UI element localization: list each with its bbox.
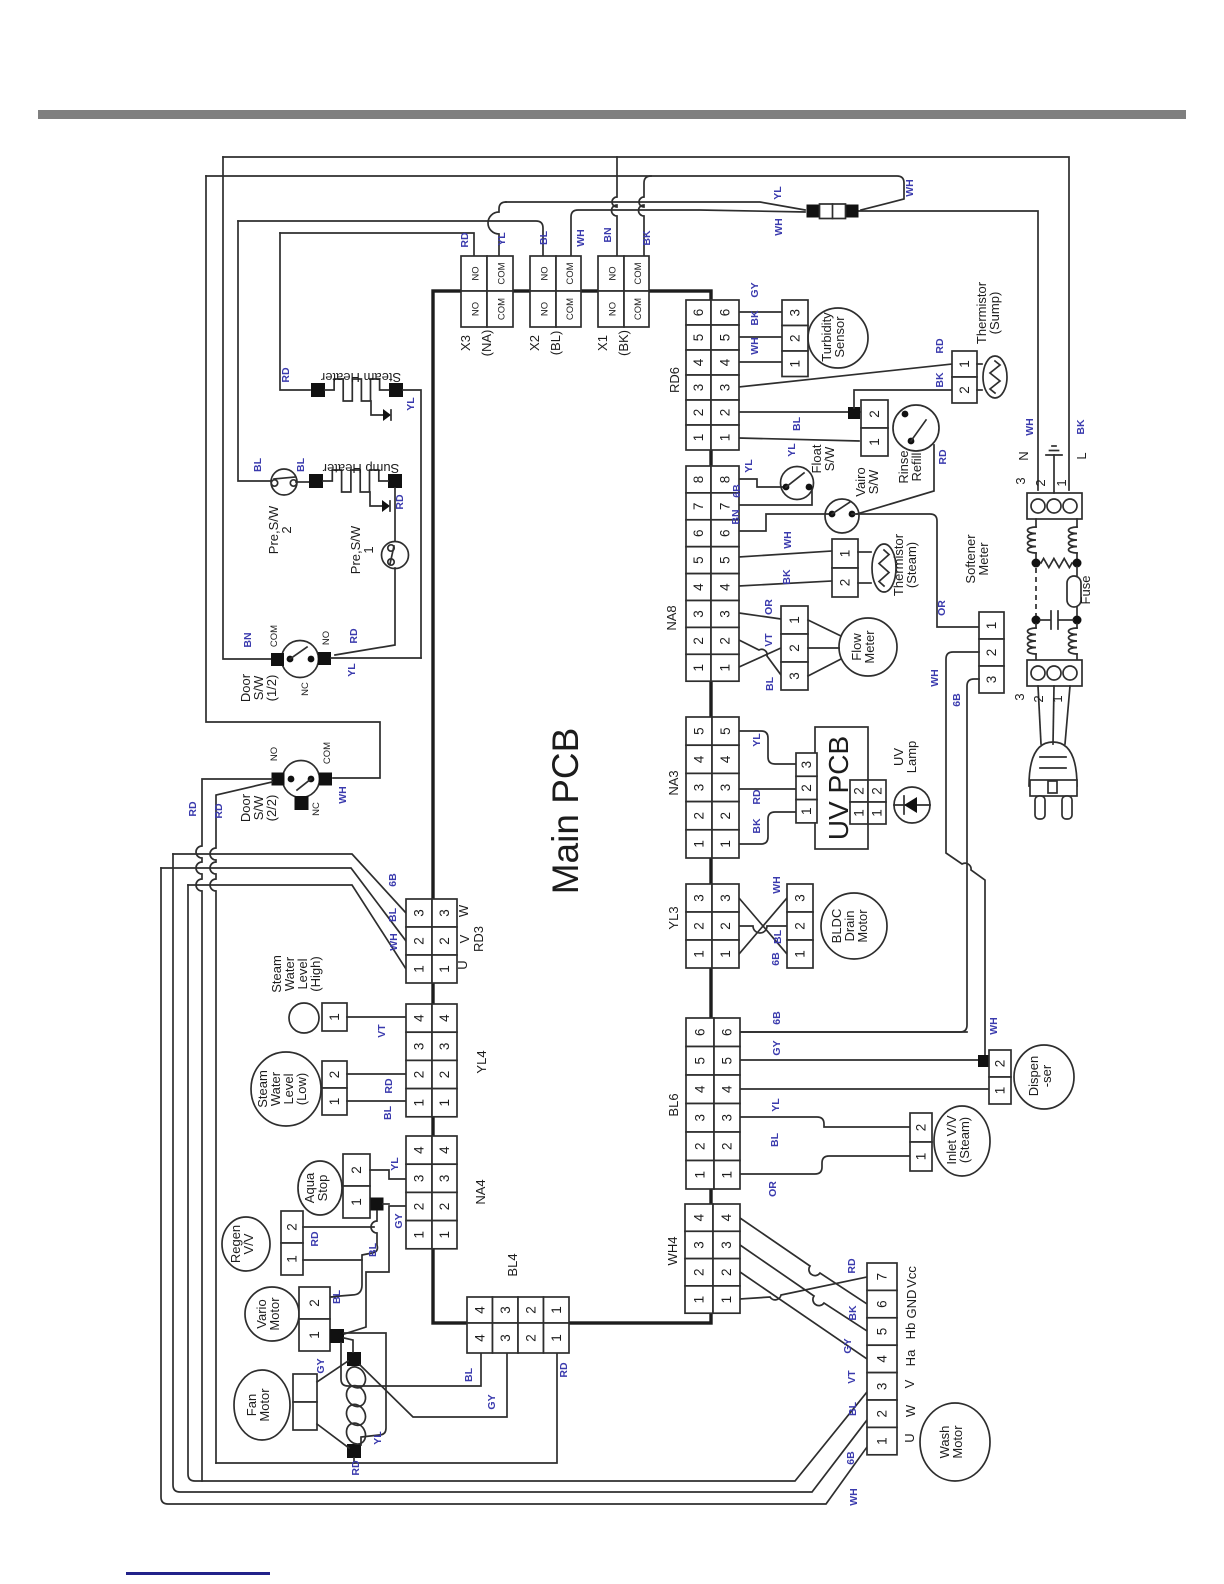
svg-text:YL: YL <box>743 459 755 473</box>
svg-text:2: 2 <box>692 1268 707 1276</box>
svg-text:BL: BL <box>772 929 784 944</box>
svg-text:YL: YL <box>496 232 508 246</box>
svg-text:1: 1 <box>914 1153 929 1161</box>
svg-text:2: 2 <box>867 410 882 418</box>
svg-text:BN: BN <box>602 227 614 242</box>
svg-text:3: 3 <box>718 610 733 618</box>
svg-text:1: 1 <box>327 1098 342 1106</box>
svg-text:BK: BK <box>934 372 946 388</box>
svg-text:6B: 6B <box>951 693 963 707</box>
svg-text:2: 2 <box>327 1071 342 1079</box>
svg-text:COM: COM <box>565 262 576 284</box>
Main PCB outline <box>433 291 711 1323</box>
wire WH NA8 pin5 thermistor steam 1 <box>739 551 832 557</box>
svg-text:1: 1 <box>691 664 706 672</box>
svg-text:3: 3 <box>437 1043 452 1051</box>
thermal fuse <box>807 205 820 218</box>
svg-text:1: 1 <box>412 1099 427 1107</box>
svg-text:1: 1 <box>285 1255 300 1263</box>
wire BK NA8 pin4 thermistor steam 2 <box>739 581 832 586</box>
wire BL BL6 pin3 to inlet 2 <box>739 1117 910 1127</box>
svg-text:2: 2 <box>692 922 707 930</box>
svg-text:GY: GY <box>771 1040 783 1055</box>
wire BK thermistor sump 2 <box>854 390 952 408</box>
svg-text:Meter: Meter <box>862 630 877 664</box>
svg-text:RD: RD <box>213 803 225 819</box>
svg-text:BL: BL <box>847 1401 859 1416</box>
svg-text:1: 1 <box>993 1087 1008 1095</box>
svg-text:3: 3 <box>720 1114 735 1122</box>
svg-text:3: 3 <box>692 784 707 792</box>
svg-text:2: 2 <box>349 1166 364 1174</box>
svg-text:Stop: Stop <box>315 1175 330 1202</box>
wire RD Pre S/W1 to Door S/W 1-2 NO <box>335 568 395 655</box>
wire BK NA3 pin1 <box>738 812 796 844</box>
svg-text:7: 7 <box>718 503 733 511</box>
svg-text:NO: NO <box>540 266 551 280</box>
svg-text:YL: YL <box>770 1098 782 1112</box>
connector aqua pins 2,1 <box>343 1154 370 1186</box>
svg-text:4: 4 <box>718 358 733 366</box>
svg-text:BL6: BL6 <box>666 1093 681 1116</box>
svg-text:YL: YL <box>772 186 784 200</box>
connector NA3 <box>686 717 712 745</box>
svg-text:4: 4 <box>720 1085 735 1093</box>
wire 6B BL6 pin6 <box>739 1031 967 1033</box>
svg-text:WH: WH <box>1024 418 1036 436</box>
svg-text:1: 1 <box>327 1013 342 1021</box>
Door S/W 1/2 <box>282 641 319 678</box>
svg-text:W: W <box>903 1404 918 1417</box>
svg-text:Motor: Motor <box>267 1297 282 1331</box>
wire 6B softener pin3 <box>739 679 979 1032</box>
svg-text:WH: WH <box>388 933 400 951</box>
svg-text:GY: GY <box>393 1213 405 1228</box>
svg-text:2: 2 <box>718 637 733 645</box>
wire GY WH4 pin3 to wash Hb <box>740 1245 867 1331</box>
Inlet VV connector 2,1 <box>910 1113 932 1142</box>
wire VT WH4 pin2 to wash Ha <box>740 1272 867 1359</box>
svg-text:3: 3 <box>691 384 706 392</box>
svg-text:RD6: RD6 <box>667 367 682 393</box>
svg-text:1: 1 <box>437 965 452 973</box>
wire RD rinse to vairo contact <box>857 445 934 514</box>
svg-text:RD: RD <box>558 1362 570 1378</box>
svg-text:BL: BL <box>764 676 776 691</box>
wire WH RD6 pin4 <box>739 361 782 363</box>
svg-text:1: 1 <box>957 360 972 368</box>
svg-text:BN: BN <box>242 632 254 647</box>
wire OR vairo to softener pin1 <box>852 514 979 627</box>
svg-text:3: 3 <box>718 784 733 792</box>
svg-text:1: 1 <box>691 434 706 442</box>
svg-text:3: 3 <box>412 909 427 917</box>
connector thermistor sump 1,2 <box>952 351 977 377</box>
svg-text:2: 2 <box>718 922 733 930</box>
svg-text:-ser: -ser <box>1039 1064 1054 1087</box>
svg-text:6: 6 <box>691 309 706 317</box>
svg-text:YL: YL <box>405 397 417 411</box>
wire BL <box>347 1100 406 1102</box>
UV Lamp <box>894 787 930 823</box>
svg-text:7: 7 <box>875 1273 890 1281</box>
svg-text:1: 1 <box>412 1231 427 1239</box>
filter coils lower <box>1035 624 1037 628</box>
Dispenser <box>1014 1045 1074 1109</box>
svg-text:8: 8 <box>718 476 733 484</box>
Steam Heater <box>311 383 325 397</box>
svg-text:S/W: S/W <box>822 446 837 471</box>
svg-text:4: 4 <box>719 1213 734 1221</box>
svg-text:2: 2 <box>279 526 294 533</box>
svg-text:2: 2 <box>285 1223 300 1231</box>
svg-text:2: 2 <box>523 1306 538 1314</box>
wire BL NA8 pin1 flow 2 crossing <box>739 648 781 667</box>
wire YL NA8 pin8 to float <box>739 479 786 487</box>
svg-text:5: 5 <box>693 1057 708 1065</box>
svg-text:(2/2): (2/2) <box>264 795 279 822</box>
svg-text:2: 2 <box>412 1071 427 1079</box>
svg-text:Motor: Motor <box>950 1425 965 1459</box>
svg-text:RD: RD <box>459 232 471 248</box>
svg-text:BL: BL <box>295 457 307 472</box>
svg-text:3: 3 <box>984 676 999 684</box>
svg-text:YL: YL <box>372 1431 384 1445</box>
wire junction to coil top <box>344 1338 353 1352</box>
junction aqua <box>371 1198 384 1211</box>
svg-text:4: 4 <box>691 583 706 591</box>
svg-text:6: 6 <box>693 1028 708 1036</box>
junction dispenser <box>978 1055 990 1067</box>
wire WH YL3 pin1 to drain 3 <box>739 898 787 954</box>
svg-text:2: 2 <box>523 1334 538 1342</box>
svg-text:Refill: Refill <box>909 452 924 481</box>
wire 6B NA8 pin7 <box>739 491 812 505</box>
Turbidity Sensor <box>808 308 868 368</box>
connector WH4 <box>685 1204 713 1231</box>
svg-text:RD: RD <box>846 1258 858 1274</box>
fan motor coil <box>347 1352 361 1366</box>
Wash motor connector 7..1 <box>867 1263 897 1290</box>
svg-text:2: 2 <box>788 334 803 342</box>
BLDC Drain Motor <box>821 893 887 959</box>
svg-text:RD: RD <box>280 367 292 383</box>
svg-text:RD: RD <box>348 628 360 644</box>
svg-text:1: 1 <box>718 664 733 672</box>
svg-text:3: 3 <box>412 1043 427 1051</box>
svg-text:1: 1 <box>719 1296 734 1304</box>
connector UV out 2x2 <box>850 780 868 802</box>
svg-text:4: 4 <box>718 583 733 591</box>
svg-text:1: 1 <box>867 438 882 446</box>
svg-text:2: 2 <box>437 937 452 945</box>
svg-text:6B: 6B <box>771 1011 783 1025</box>
svg-text:1: 1 <box>787 616 802 624</box>
svg-text:COM: COM <box>269 625 280 647</box>
wire RD BL4 pin1 bottom line <box>216 1353 557 1463</box>
svg-text:3: 3 <box>437 1175 452 1183</box>
wire BL RD6 pin2 to rinse refill 2 <box>739 411 861 413</box>
svg-text:4: 4 <box>693 1085 708 1093</box>
wire RD to Pre S/W 1 <box>394 488 396 541</box>
svg-text:Main PCB: Main PCB <box>545 728 586 895</box>
svg-text:6: 6 <box>718 529 733 537</box>
svg-text:GY: GY <box>842 1338 854 1353</box>
svg-text:2: 2 <box>307 1299 322 1307</box>
connector turbidity 3,2,1 <box>782 300 808 326</box>
svg-text:OR: OR <box>763 599 775 615</box>
svg-text:2: 2 <box>720 1142 735 1150</box>
wire BL BL4 pin4 to vario junction <box>341 1343 481 1386</box>
svg-text:3: 3 <box>1012 693 1027 700</box>
wire YL Door NO to steam heater line <box>331 657 421 659</box>
svg-text:WH: WH <box>773 218 785 236</box>
svg-text:U: U <box>902 1433 917 1442</box>
svg-text:4: 4 <box>412 1146 427 1154</box>
UV PCB box <box>815 727 868 849</box>
wire RD frame vertical x=280 to Steam Heater <box>280 233 310 390</box>
wire 6B YL3 pin3 to drain 1 <box>739 898 787 954</box>
wire RD Door2 NO diagonal <box>210 782 272 1463</box>
svg-text:1: 1 <box>788 360 803 368</box>
svg-text:X2: X2 <box>527 335 542 351</box>
wire YL RD6 pin1 to rinse refill 1 <box>739 438 859 441</box>
svg-text:NA4: NA4 <box>473 1179 488 1204</box>
svg-text:BK: BK <box>641 230 653 246</box>
connector drain 3,2,1 <box>787 884 813 912</box>
wire RD WH4 pin1 to wash Vcc <box>740 1277 867 1300</box>
svg-text:(Steam): (Steam) <box>957 1117 972 1163</box>
svg-text:4: 4 <box>472 1306 487 1314</box>
svg-text:2: 2 <box>984 649 999 657</box>
svg-text:RD: RD <box>751 789 763 805</box>
svg-text:L: L <box>1074 452 1089 459</box>
svg-text:2: 2 <box>412 937 427 945</box>
svg-text:BK: BK <box>781 569 793 585</box>
svg-text:3: 3 <box>692 894 707 902</box>
svg-text:2: 2 <box>412 1203 427 1211</box>
svg-text:3: 3 <box>693 1114 708 1122</box>
svg-text:BK: BK <box>749 310 761 326</box>
Sump Heater <box>296 481 309 483</box>
svg-text:1: 1 <box>692 950 707 958</box>
svg-text:COM: COM <box>633 298 644 320</box>
svg-text:Sensor: Sensor <box>832 316 847 358</box>
svg-text:3: 3 <box>691 610 706 618</box>
wire BK frame vertical x=206 around to Door S/W 2-2 COM <box>206 176 380 778</box>
wire RD <box>347 1073 406 1075</box>
svg-text:1: 1 <box>838 550 853 558</box>
svg-text:VT: VT <box>846 1370 858 1384</box>
Inlet VV Steam <box>934 1106 990 1176</box>
svg-text:WH: WH <box>749 337 761 355</box>
wire BL YL3 pin2 to drain 2 loop <box>739 926 787 933</box>
wires fan box to coil <box>317 1361 348 1382</box>
svg-text:4: 4 <box>692 1213 707 1221</box>
svg-text:Steam Heater: Steam Heater <box>320 370 401 385</box>
svg-text:Sump Heater: Sump Heater <box>322 461 399 476</box>
svg-text:(Low): (Low) <box>294 1073 309 1106</box>
svg-text:2: 2 <box>914 1124 929 1132</box>
svg-text:BL: BL <box>382 1105 394 1120</box>
wire YL aqua to NA4 pin3 <box>370 1170 406 1179</box>
svg-text:RD: RD <box>394 494 406 510</box>
svg-text:YL3: YL3 <box>666 906 681 929</box>
svg-text:3: 3 <box>498 1334 513 1342</box>
svg-text:WH: WH <box>575 229 587 247</box>
svg-text:WH: WH <box>848 1488 860 1506</box>
svg-text:3: 3 <box>793 894 808 902</box>
svg-text:2: 2 <box>692 812 707 820</box>
footer link line <box>126 1572 270 1575</box>
svg-text:NC: NC <box>311 802 322 816</box>
svg-text:GY: GY <box>315 1358 327 1373</box>
svg-text:BN: BN <box>730 509 742 524</box>
svg-text:1: 1 <box>870 809 885 817</box>
junction dots + resistor <box>1032 559 1041 568</box>
svg-text:S/W: S/W <box>866 469 881 494</box>
svg-text:NO: NO <box>269 747 280 761</box>
svg-text:Hb: Hb <box>903 1323 918 1340</box>
svg-text:(BK): (BK) <box>616 330 631 356</box>
wire BN frame vertical x=223 to Door S/W 1-2 COM <box>223 157 272 659</box>
svg-text:2: 2 <box>852 787 867 795</box>
wire YL BL6 pin4 to dispenser 1 <box>739 1088 989 1090</box>
Softener Meter <box>979 612 1004 639</box>
svg-text:YL: YL <box>751 733 763 747</box>
svg-text:6: 6 <box>718 309 733 317</box>
svg-text:RD: RD <box>350 1460 362 1476</box>
svg-text:GY: GY <box>749 282 761 297</box>
dashed link <box>1035 568 1037 616</box>
wire GY BL6 pin5 to dispenser 2 <box>739 1059 989 1061</box>
wire OR NA8 pin3 flow 1 <box>739 613 781 619</box>
svg-text:5: 5 <box>692 727 707 735</box>
svg-text:WH: WH <box>337 786 349 804</box>
svg-text:1: 1 <box>1054 479 1069 486</box>
svg-text:NO: NO <box>321 631 332 645</box>
connector X1 (BK) <box>598 256 624 291</box>
svg-text:1: 1 <box>692 840 707 848</box>
svg-text:BL: BL <box>769 1132 781 1147</box>
svg-text:Motor: Motor <box>257 1388 272 1422</box>
svg-text:1: 1 <box>720 1171 735 1179</box>
wire GY RD6 pin6 <box>739 311 782 313</box>
Thermistor Sump symbol <box>977 363 982 365</box>
svg-text:Lamp: Lamp <box>904 741 919 774</box>
connector UV in 3,2,1 <box>796 753 817 776</box>
svg-text:2: 2 <box>718 812 733 820</box>
svg-text:1: 1 <box>984 622 999 630</box>
ground sump heater <box>370 492 382 506</box>
svg-text:3: 3 <box>719 1241 734 1249</box>
connector regen pins 2,1 <box>281 1211 303 1243</box>
terminal block 2 <box>1027 660 1082 686</box>
svg-text:5: 5 <box>718 556 733 564</box>
Rinse Refill <box>893 405 939 451</box>
svg-text:6B: 6B <box>845 1451 857 1465</box>
svg-text:3: 3 <box>787 672 802 680</box>
svg-text:1: 1 <box>361 546 376 553</box>
svg-text:1: 1 <box>1050 695 1065 702</box>
svg-text:OR: OR <box>767 1181 779 1197</box>
svg-text:2: 2 <box>691 409 706 417</box>
svg-text:BL: BL <box>331 1289 343 1304</box>
svg-text:1: 1 <box>349 1198 364 1206</box>
wire GY BL4 pin3 to coil top <box>360 1353 507 1417</box>
wire BL aqua junction down to Vario 2 <box>330 1211 377 1297</box>
svg-text:NO: NO <box>471 302 482 316</box>
wire V bus <box>161 868 406 941</box>
wire RD regen <box>303 1226 374 1228</box>
Fan Motor <box>234 1370 290 1440</box>
svg-text:6B: 6B <box>731 484 743 498</box>
svg-text:2: 2 <box>875 1410 890 1418</box>
connector RD3 <box>406 899 432 927</box>
wire top line A (BN/L bus) y=157 <box>223 157 1069 490</box>
svg-text:1: 1 <box>718 434 733 442</box>
svg-text:1: 1 <box>852 809 867 817</box>
svg-text:(Steam): (Steam) <box>904 542 919 588</box>
svg-text:1: 1 <box>718 840 733 848</box>
plug wires <box>1038 686 1041 744</box>
svg-text:BL: BL <box>387 907 399 922</box>
svg-text:NO: NO <box>540 302 551 316</box>
svg-text:5: 5 <box>691 334 706 342</box>
svg-text:1: 1 <box>799 807 814 815</box>
svg-text:4: 4 <box>691 358 706 366</box>
svg-text:2: 2 <box>719 1268 734 1276</box>
svg-text:Fuse: Fuse <box>1078 576 1093 605</box>
svg-text:YL: YL <box>786 443 798 457</box>
svg-text:X1: X1 <box>595 335 610 351</box>
svg-text:BK: BK <box>751 818 763 834</box>
svg-text:(BL): (BL) <box>548 331 563 356</box>
svg-text:WH: WH <box>782 531 794 549</box>
svg-text:(NA): (NA) <box>479 330 494 357</box>
svg-text:4: 4 <box>472 1334 487 1342</box>
svg-text:6: 6 <box>720 1028 735 1036</box>
svg-text:YL: YL <box>389 1157 401 1171</box>
svg-text:5: 5 <box>720 1057 735 1065</box>
svg-text:1: 1 <box>549 1334 564 1342</box>
ground steam heater <box>371 401 383 415</box>
svg-text:7: 7 <box>691 503 706 511</box>
svg-text:BL: BL <box>463 1367 475 1382</box>
svg-text:2: 2 <box>993 1060 1008 1068</box>
Flow Meter <box>781 606 808 634</box>
wire VT <box>347 1016 406 1018</box>
Vario Motor <box>245 1287 299 1341</box>
svg-text:4: 4 <box>875 1355 890 1363</box>
svg-text:2: 2 <box>691 637 706 645</box>
connector rinse refill 2,1 <box>861 400 888 428</box>
svg-text:5: 5 <box>691 556 706 564</box>
svg-text:4: 4 <box>437 1146 452 1154</box>
svg-text:1: 1 <box>307 1331 322 1339</box>
svg-text:WH: WH <box>988 1017 1000 1035</box>
svg-text:NA3: NA3 <box>666 770 681 795</box>
svg-text:4: 4 <box>692 755 707 763</box>
svg-text:2: 2 <box>838 579 853 587</box>
svg-text:6: 6 <box>691 529 706 537</box>
svg-text:2: 2 <box>1031 695 1046 702</box>
svg-text:VT: VT <box>763 633 775 647</box>
svg-text:WH: WH <box>904 179 916 197</box>
earth symbol <box>1053 455 1055 493</box>
svg-text:Vcc: Vcc <box>904 1266 919 1288</box>
svg-text:2: 2 <box>1033 479 1048 486</box>
